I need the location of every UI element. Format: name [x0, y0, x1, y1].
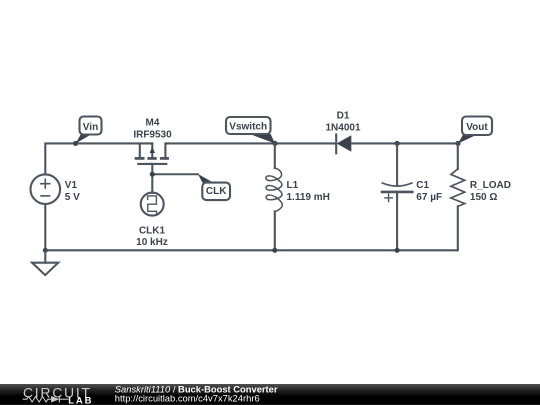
- body line with arrow: [151, 143, 153, 157]
- R_LOAD label: [470, 180, 511, 203]
- svg-text:Vout: Vout: [466, 122, 488, 133]
- svg-text:CLK1: CLK1: [139, 225, 166, 236]
- L1 label: [287, 180, 330, 203]
- clock source CLK1: [141, 193, 164, 216]
- node label Vswitch: [226, 117, 278, 146]
- svg-text:D1: D1: [337, 111, 350, 122]
- svg-text:V1: V1: [65, 180, 78, 191]
- footer bar: [0, 384, 540, 405]
- ground: [32, 263, 58, 275]
- wire C1 bottom: [396, 192, 398, 250]
- capacitor C1: [381, 183, 414, 202]
- wire Vswitch node to L1 top: [274, 143, 276, 168]
- svg-text:http://circuitlab.com/c4v7x7k2: http://circuitlab.com/c4v7x7k24rhr6: [115, 393, 260, 404]
- wire C1 top: [396, 143, 398, 185]
- svg-text:5 V: 5 V: [65, 192, 80, 203]
- resistor R_LOAD: [451, 169, 465, 206]
- gate plate: [138, 163, 166, 165]
- D1 label: [325, 111, 360, 134]
- inductor L1: [266, 168, 282, 212]
- svg-text:Vin: Vin: [83, 122, 98, 133]
- svg-text:L1: L1: [287, 180, 299, 191]
- transistor M4 (P-MOSFET IRF9530): [135, 143, 169, 163]
- svg-text:10 kHz: 10 kHz: [136, 237, 168, 248]
- junction L1/rail: [272, 248, 277, 253]
- drain stub: [164, 143, 166, 157]
- junction D1/C1 top: [395, 141, 400, 146]
- footer title text: [115, 383, 278, 403]
- diode D1: [336, 134, 351, 153]
- svg-text:LAB: LAB: [68, 396, 93, 405]
- svg-text:Vswitch: Vswitch: [229, 122, 267, 133]
- wire R_LOAD bottom to rail: [457, 206, 459, 250]
- svg-text:IRF9530: IRF9530: [133, 129, 172, 140]
- junction C1/rail: [395, 248, 400, 253]
- V1 label: [65, 180, 80, 203]
- svg-text:R_LOAD: R_LOAD: [470, 180, 511, 191]
- wire top rail left: V1 to MOSFET source/body: [45, 143, 152, 174]
- wire Vout node to R_LOAD: [457, 143, 459, 169]
- CLK1 label: [136, 225, 168, 248]
- wire to ground: [44, 250, 46, 262]
- wire junction to CLK1: [151, 174, 153, 193]
- svg-text:1N4001: 1N4001: [325, 123, 360, 134]
- wire top rail right: D1 anode to Vout node: [351, 142, 458, 144]
- wire junction to CLK pointer: [152, 173, 198, 175]
- wire top rail middle: MOSFET drain to D1 cathode: [165, 142, 336, 144]
- svg-text:150 Ω: 150 Ω: [470, 192, 497, 203]
- junction ground node: [43, 248, 48, 253]
- wire gate to junction: [151, 164, 153, 174]
- wire V1 bottom to ground rail: [44, 204, 46, 250]
- node label CLK: [198, 174, 230, 200]
- source stub: [139, 143, 141, 157]
- junction gate node: [150, 172, 155, 177]
- CircuitLab logo: [23, 385, 94, 405]
- wire L1 bottom to rail: [274, 212, 276, 251]
- wire bottom rail: [45, 249, 458, 251]
- voltage source V1: [31, 174, 61, 204]
- svg-text:67 µF: 67 µF: [416, 192, 442, 203]
- node label Vout: [455, 117, 492, 147]
- svg-text:CLK: CLK: [206, 186, 227, 197]
- svg-text:M4: M4: [146, 117, 160, 128]
- svg-text:C1: C1: [416, 180, 429, 191]
- M4 label: [133, 117, 172, 140]
- C1 label: [416, 180, 442, 203]
- svg-text:1.119 mH: 1.119 mH: [287, 192, 330, 203]
- node label Vin: [73, 117, 101, 147]
- channel bars: [135, 157, 169, 160]
